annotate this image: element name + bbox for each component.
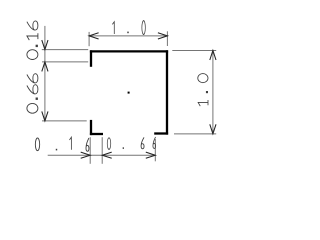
left dim extension line 2 [42,61,88,63]
top dim extension line left [88,32,90,46]
left dim arrow down at y49.6 [42,40,48,50]
bottom dim arrow right at x90.2 [81,152,91,158]
top dim right arrow [158,33,168,39]
top dim left arrow [89,33,99,39]
bottom dim arrow left at x102.2 [102,152,112,158]
part outline: bottom-left terminal segment [90,133,103,135]
right dim text 1.0 (rotated) [198,74,208,107]
top dim extension line right [166,31,168,46]
bottom dim arrow right at x155.3 [146,152,156,158]
top dimension line [89,35,167,37]
bottom dimension line [48,154,156,156]
right dim arrow up [210,51,216,61]
left dim arrow down at y120.9 [42,111,48,121]
bottom dim extension line 3 [154,139,156,161]
right dim extension line bottom [174,133,216,135]
left dim text 0.16 (rotated) [27,21,38,60]
center origin dot [128,92,130,94]
bottom dim text 0.66 [107,137,155,149]
left dimension line [44,26,46,121]
right dim extension line top [172,50,216,52]
left dim arrow up at y61.9 [42,62,48,72]
part outline: right edge [166,50,168,134]
right dim arrow down [210,124,216,134]
part outline: left edge bottom stub [90,120,92,135]
top dim text 1.0 [112,21,145,35]
bottom dim extension line 1 [89,137,91,164]
part outline: bottom-right terminal segment [154,132,168,134]
left dim extension line 1 [42,49,88,51]
left dim extension line 3 [42,120,87,122]
bottom dim text 0.16 [35,137,89,151]
left dim text 0.66 (rotated) [27,74,38,114]
bottom dim extension line 2 [101,137,103,164]
part outline: left edge top stub [90,50,92,67]
part outline: top edge [90,50,168,52]
right dimension line [212,51,214,134]
